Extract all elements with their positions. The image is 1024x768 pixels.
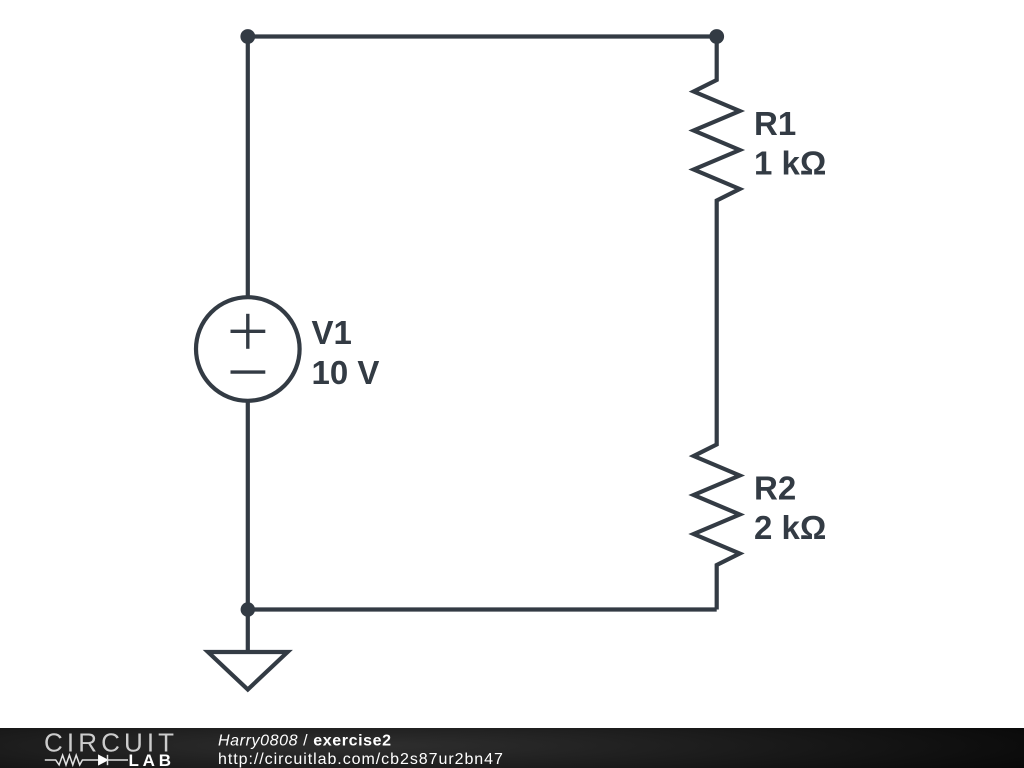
node dot top-left bbox=[240, 29, 255, 44]
svg-text:R1: R1 bbox=[754, 105, 796, 142]
svg-text:Harry0808 / exercise2: Harry0808 / exercise2 bbox=[218, 733, 392, 750]
resistor R1 bbox=[694, 37, 740, 221]
svg-text:10 V: 10 V bbox=[312, 354, 380, 391]
wire bottom bbox=[248, 607, 717, 611]
ground bbox=[208, 652, 288, 690]
svg-text:V1: V1 bbox=[312, 314, 352, 351]
wire left lower (V1 bottom lead) bbox=[246, 400, 250, 610]
voltage source V1 bbox=[196, 297, 300, 401]
svg-text:LAB: LAB bbox=[129, 751, 175, 768]
wire right middle bbox=[715, 220, 719, 424]
wire left upper (V1 top lead) bbox=[246, 37, 250, 299]
svg-text:R2: R2 bbox=[754, 470, 796, 507]
svg-text:2 kΩ: 2 kΩ bbox=[754, 509, 826, 546]
CircuitLab logo resistor-diode glyph bbox=[45, 755, 128, 765]
resistor R2 bbox=[694, 424, 740, 610]
node dot top-right bbox=[709, 29, 724, 44]
svg-text:1 kΩ: 1 kΩ bbox=[754, 144, 826, 181]
svg-text:http://circuitlab.com/cb2s87ur: http://circuitlab.com/cb2s87ur2bn47 bbox=[218, 751, 504, 768]
wire top bbox=[248, 34, 717, 38]
wire ground lead bbox=[246, 610, 250, 655]
node dot bottom-left bbox=[241, 602, 255, 616]
